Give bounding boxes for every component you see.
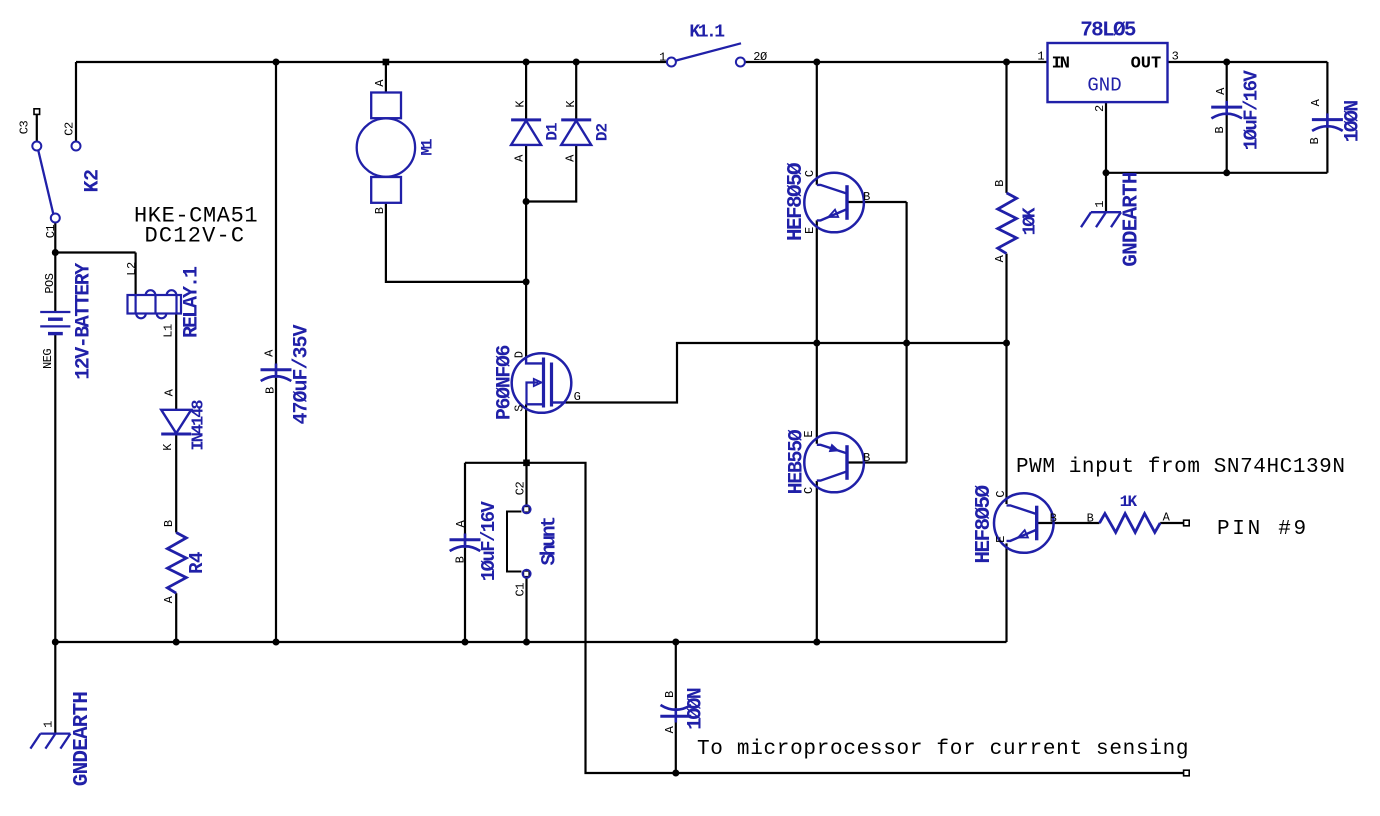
svg-text:GND: GND [1087, 75, 1121, 97]
svg-text:L1: L1 [161, 324, 175, 338]
svg-text:E: E [803, 227, 817, 234]
svg-text:1ØØN: 1ØØN [1341, 101, 1364, 143]
svg-text:B: B [863, 451, 870, 465]
svg-text:B: B [1087, 511, 1094, 525]
svg-text:B: B [663, 691, 677, 698]
svg-text:C2: C2 [514, 482, 528, 496]
svg-text:B: B [1308, 137, 1322, 144]
svg-text:1: 1 [659, 50, 666, 64]
svg-text:12V-BATTERY: 12V-BATTERY [72, 263, 95, 380]
svg-text:1ØK: 1ØK [1020, 207, 1040, 235]
svg-text:D: D [513, 351, 527, 358]
svg-text:GNDEARTH: GNDEARTH [1121, 172, 1144, 267]
svg-text:C1: C1 [514, 583, 528, 597]
svg-text:IN: IN [1052, 55, 1070, 74]
svg-text:K1.1: K1.1 [689, 23, 725, 43]
svg-text:B: B [263, 387, 277, 394]
svg-text:B: B [373, 207, 387, 214]
svg-text:S: S [513, 405, 527, 412]
svg-text:1: 1 [1093, 201, 1107, 208]
svg-text:B: B [162, 520, 176, 527]
svg-text:1K: 1K [1120, 493, 1138, 511]
svg-text:HEF8Ø5Ø: HEF8Ø5Ø [973, 484, 996, 563]
svg-text:2Ø: 2Ø [753, 50, 767, 64]
svg-text:1: 1 [41, 721, 55, 728]
svg-text:3: 3 [1172, 50, 1179, 64]
svg-text:G: G [574, 390, 581, 404]
svg-text:1ØuF/16V: 1ØuF/16V [1241, 70, 1263, 151]
svg-text:1ØuF/16V: 1ØuF/16V [478, 501, 500, 582]
svg-text:C: C [803, 170, 817, 177]
svg-text:B: B [863, 190, 870, 204]
svg-text:R4: R4 [186, 552, 208, 574]
svg-text:C2: C2 [62, 122, 76, 136]
svg-text:DC12V-C: DC12V-C [144, 224, 245, 249]
svg-text:47ØuF/35V: 47ØuF/35V [290, 325, 313, 425]
svg-text:Shunt: Shunt [538, 517, 561, 566]
svg-text:GNDEARTH: GNDEARTH [71, 692, 94, 787]
svg-text:PWM input from SN74HC139N: PWM input from SN74HC139N [1016, 456, 1346, 479]
svg-text:PIN #9: PIN #9 [1217, 518, 1309, 541]
svg-text:E: E [802, 431, 816, 438]
svg-text:C3: C3 [18, 121, 32, 135]
svg-text:M1: M1 [419, 139, 437, 156]
svg-text:B: B [454, 556, 468, 563]
svg-text:E: E [994, 536, 1008, 543]
svg-text:OUT: OUT [1131, 55, 1162, 74]
svg-text:B: B [993, 180, 1007, 187]
svg-text:C1: C1 [44, 225, 58, 239]
svg-text:1ØØN: 1ØØN [685, 688, 708, 730]
svg-text:L2: L2 [125, 262, 139, 276]
svg-text:To microprocessor for current: To microprocessor for current sensing [697, 738, 1189, 761]
svg-text:POS: POS [43, 273, 57, 293]
svg-text:HEB55Ø: HEB55Ø [785, 429, 808, 494]
svg-text:RELAY.1: RELAY.1 [180, 266, 203, 338]
svg-text:C: C [994, 491, 1008, 498]
svg-text:B: B [1213, 127, 1227, 134]
svg-text:K2: K2 [81, 169, 104, 192]
svg-text:B: B [1050, 511, 1057, 525]
svg-text:1: 1 [1037, 50, 1044, 64]
svg-text:D2: D2 [594, 124, 612, 142]
svg-text:2: 2 [1093, 105, 1107, 112]
svg-text:IN4148: IN4148 [189, 400, 208, 451]
svg-text:C: C [802, 487, 816, 494]
svg-text:NEG: NEG [41, 349, 55, 369]
svg-text:78LØ5: 78LØ5 [1080, 20, 1136, 43]
svg-text:D1: D1 [544, 123, 562, 141]
